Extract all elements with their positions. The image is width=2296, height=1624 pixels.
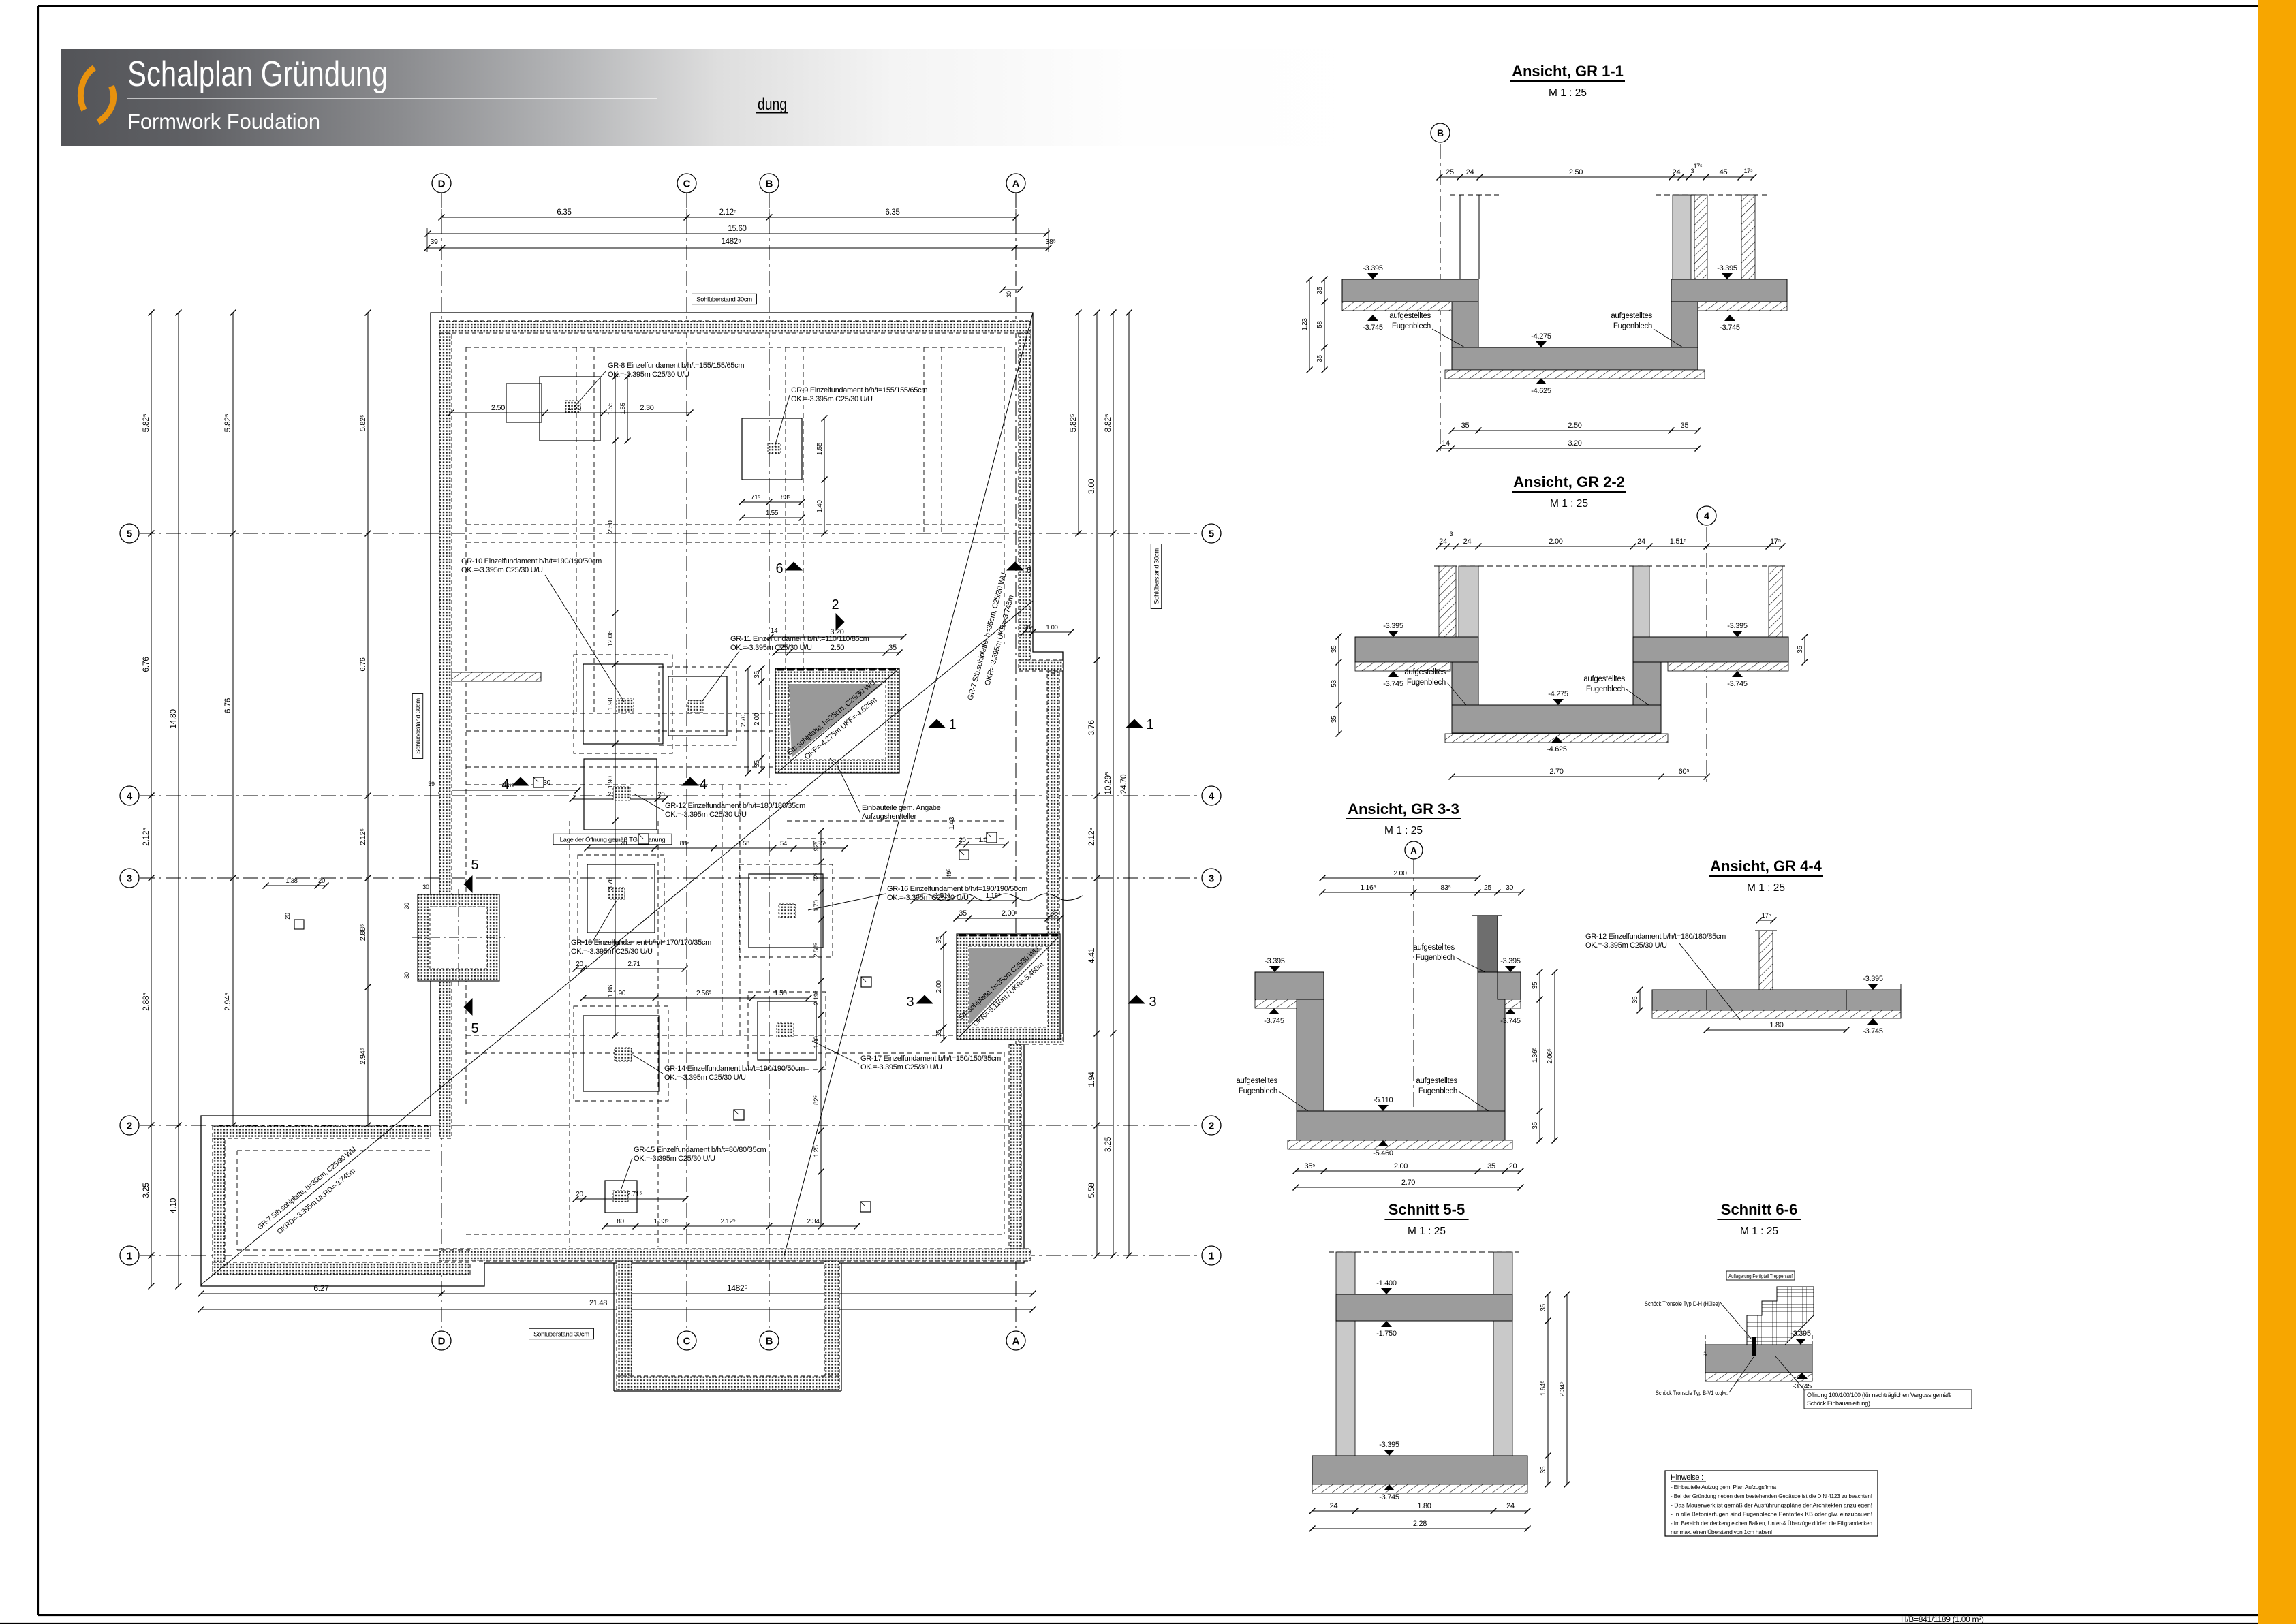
svg-text:2.00: 2.00 [754, 713, 761, 725]
svg-text:35: 35 [1681, 422, 1689, 430]
svg-text:Schnitt 5-5: Schnitt 5-5 [1389, 1201, 1465, 1218]
wall band left lower [439, 981, 452, 1138]
svg-text:5.82⁵: 5.82⁵ [359, 415, 367, 431]
svg-text:1482⁵: 1482⁵ [727, 1283, 747, 1293]
svg-text:35: 35 [1461, 422, 1470, 430]
svg-text:2: 2 [1209, 1121, 1214, 1132]
svg-text:8.82⁵: 8.82⁵ [1103, 413, 1113, 432]
left shaft pit body [418, 894, 499, 981]
elevator pit 2 gray slab triangle [969, 948, 1042, 1025]
schnitt5 hatch strip [1312, 1484, 1527, 1493]
svg-text:83⁵: 83⁵ [1440, 884, 1450, 892]
interior dim chain row3 [587, 847, 845, 849]
svg-text:2.50: 2.50 [607, 520, 615, 533]
svg-text:15.60: 15.60 [728, 225, 746, 233]
interior dashed strip pair vertical right of C [785, 347, 786, 713]
svg-text:-3.745: -3.745 [1727, 680, 1748, 688]
section marker 4 right [681, 777, 699, 786]
svg-text:24: 24 [1506, 1502, 1515, 1510]
wall band right upper [1019, 333, 1031, 660]
svg-text:1.90: 1.90 [813, 1036, 820, 1048]
svg-text:-3.395: -3.395 [1363, 264, 1383, 272]
section marker 5 upper [464, 875, 473, 893]
svg-text:35: 35 [1532, 1122, 1539, 1129]
svg-text:Fugenblech: Fugenblech [1407, 678, 1446, 687]
section marker 3 right [1128, 995, 1145, 1004]
section GR1 pit floor [1452, 347, 1698, 370]
svg-text:14.80: 14.80 [168, 709, 178, 729]
left dimension chain total 14.80 [178, 313, 179, 1286]
interior dim chain right column [820, 831, 822, 1226]
svg-text:H/B=841/1189 (1.00 m²): H/B=841/1189 (1.00 m²) [1901, 1614, 1984, 1624]
section GR2 pit right wall [1633, 662, 1661, 705]
svg-text:24: 24 [1439, 537, 1447, 546]
svg-text:17⁵: 17⁵ [1762, 912, 1771, 920]
elevator pit 2 diagonal [959, 937, 1059, 1037]
svg-text:GR-11 Einzelfundament b/h/t=11: GR-11 Einzelfundament b/h/t=110/110/85cm [730, 635, 869, 643]
svg-text:4: 4 [1704, 510, 1709, 521]
svg-text:12.06: 12.06 [607, 630, 615, 646]
svg-text:2.06⁵: 2.06⁵ [1547, 1048, 1554, 1063]
svg-text:aufgestelltes: aufgestelltes [1404, 668, 1446, 676]
section GR1 bottom dims [1452, 430, 1698, 431]
hatched beam strip left [452, 672, 541, 681]
svg-text:-3.395: -3.395 [1727, 622, 1748, 630]
interior dim chain vertical mid [615, 377, 616, 1035]
foundation GR-15 [605, 1181, 637, 1213]
svg-text:35: 35 [1540, 1304, 1547, 1311]
section GR3 levels [1269, 966, 1280, 972]
boxed label Lage der Oeffnung [553, 834, 672, 845]
svg-text:6: 6 [775, 561, 783, 576]
svg-text:35: 35 [778, 644, 786, 652]
svg-text:2: 2 [831, 597, 839, 612]
svg-text:nur max. einen Überstand von 1: nur max. einen Überstand von 1cm haben! [1671, 1529, 1772, 1535]
interior dashed strip pair vertical left of C [576, 347, 577, 713]
svg-text:GR-14 Einzelfundament b/h/t=19: GR-14 Einzelfundament b/h/t=190/190/50cm [664, 1065, 805, 1073]
svg-text:2.34: 2.34 [807, 1218, 820, 1225]
svg-text:24: 24 [1673, 168, 1681, 176]
top dimension 15.60 [428, 233, 1046, 234]
wall band right jog bottom [1019, 1033, 1063, 1044]
svg-text:Fugenblech: Fugenblech [1392, 322, 1431, 330]
svg-text:2.12⁵: 2.12⁵ [141, 828, 151, 846]
small dim 3.61-5 [441, 790, 578, 791]
header gradient banner [61, 49, 1403, 146]
top dimension chain grid spans [441, 217, 1016, 218]
svg-text:D: D [438, 178, 446, 190]
svg-text:60⁵: 60⁵ [1679, 768, 1690, 776]
wall band ext top [213, 1126, 431, 1138]
svg-text:Sohlüberstand 30cm: Sohlüberstand 30cm [1153, 548, 1160, 604]
svg-text:38⁵: 38⁵ [1045, 238, 1055, 246]
svg-text:Fugenblech: Fugenblech [1418, 1087, 1457, 1095]
section GR1 top dims [1440, 176, 1754, 178]
svg-text:83⁵: 83⁵ [781, 494, 791, 501]
svg-text:4.41: 4.41 [1087, 948, 1096, 963]
svg-text:5.58: 5.58 [1087, 1183, 1096, 1198]
foundation GR-12 [584, 759, 657, 830]
grid bubbles top [432, 174, 451, 193]
svg-text:53: 53 [1331, 680, 1338, 687]
svg-text:1.80: 1.80 [1417, 1502, 1431, 1510]
section GR2 middle light wall [1633, 566, 1649, 637]
section GR1 left wall lines [1459, 195, 1461, 279]
svg-text:3: 3 [1450, 531, 1453, 537]
svg-text:1.90: 1.90 [607, 698, 615, 710]
svg-text:aufgestelltes: aufgestelltes [1236, 1077, 1277, 1085]
section GR4 levels [1867, 984, 1878, 990]
elevator pit 2 left dims [943, 934, 944, 1040]
svg-text:5: 5 [471, 1021, 478, 1036]
svg-text:GR-8 Einzelfundament b/h/t=155: GR-8 Einzelfundament b/h/t=155/155/65cm [608, 362, 744, 370]
svg-text:Fugenblech: Fugenblech [1613, 322, 1652, 330]
interior dashed strip horizontal right wing [787, 820, 1004, 822]
left inner dimension chain x540 [367, 313, 369, 1125]
wall band ext bottom [213, 1262, 470, 1275]
svg-text:1.70: 1.70 [813, 900, 820, 911]
svg-text:C: C [683, 178, 691, 190]
section GR3 top dims [1322, 877, 1478, 879]
svg-text:2.00: 2.00 [1002, 909, 1015, 918]
svg-text:35: 35 [1487, 1162, 1495, 1170]
svg-text:M 1 : 25: M 1 : 25 [1550, 498, 1588, 510]
section GR3 hatch strips [1255, 999, 1297, 1008]
svg-text:-3.745: -3.745 [1793, 1382, 1812, 1390]
svg-text:3.76: 3.76 [607, 877, 615, 890]
svg-text:71⁵: 71⁵ [751, 494, 761, 501]
section GR3 grid bubble A [1405, 841, 1423, 859]
section GR3 bottom dims [1296, 1170, 1521, 1172]
top dimension 1482.5 [427, 247, 1049, 249]
schnitt5 left light column [1336, 1252, 1355, 1456]
svg-text:A: A [1012, 178, 1020, 190]
svg-text:-5.460: -5.460 [1373, 1149, 1393, 1157]
small dims left mid [266, 885, 326, 886]
interior dashed corridor right-mid [722, 785, 723, 1035]
svg-text:aufgestelltes: aufgestelltes [1389, 312, 1431, 320]
section marker 1 left [928, 719, 946, 728]
svg-text:-3.745: -3.745 [1264, 1017, 1284, 1025]
svg-text:Sohlüberstand 30cm: Sohlüberstand 30cm [533, 1330, 589, 1338]
svg-text:5.82⁵: 5.82⁵ [1068, 413, 1078, 432]
foundation GR-14 [583, 1016, 659, 1091]
svg-text:35: 35 [754, 671, 761, 678]
svg-text:-4.275: -4.275 [1548, 690, 1568, 698]
section marker 6 left [785, 562, 803, 571]
svg-text:A: A [1012, 1336, 1020, 1347]
svg-text:17⁵: 17⁵ [1694, 163, 1703, 170]
schnitt6 levels [1795, 1339, 1806, 1345]
svg-text:B: B [766, 1336, 773, 1347]
svg-text:-5.110: -5.110 [1374, 1096, 1393, 1104]
interior dashed strip row5 [466, 524, 1004, 525]
section GR1 wall dashed top line [1450, 194, 1499, 196]
section GR2 bottom dims [1452, 776, 1707, 777]
section GR1 right hatched wall 1 [1694, 195, 1707, 279]
boxed label Sohlueberstand right rotated [1151, 544, 1162, 609]
right dimension chain segments [1096, 313, 1098, 1255]
svg-text:39: 39 [428, 781, 435, 787]
svg-text:-1.400: -1.400 [1376, 1279, 1397, 1287]
svg-text:35: 35 [1331, 715, 1338, 723]
svg-text:1.38: 1.38 [285, 877, 297, 885]
small room rect near GR-8 [506, 384, 542, 422]
svg-text:1.51⁵: 1.51⁵ [1670, 537, 1686, 546]
svg-text:2.50: 2.50 [1568, 422, 1581, 430]
interior dim chain 2.71 [576, 968, 685, 969]
svg-text:1.40: 1.40 [816, 500, 824, 513]
svg-text:aufgestelltes: aufgestelltes [1416, 1077, 1457, 1085]
svg-text:6.76: 6.76 [141, 657, 151, 672]
svg-text:B: B [766, 178, 773, 190]
schnitt6 tronsole element [1752, 1337, 1756, 1356]
svg-text:1.43: 1.43 [948, 817, 956, 830]
svg-text:1.00: 1.00 [1046, 624, 1057, 631]
foundation GR-10 [583, 664, 663, 744]
svg-text:-4.625: -4.625 [1531, 387, 1551, 395]
svg-text:5: 5 [471, 858, 478, 873]
svg-text:30: 30 [1006, 291, 1012, 298]
svg-text:2.12⁵: 2.12⁵ [1087, 828, 1096, 846]
interior dim chain top-left [451, 412, 690, 413]
svg-text:2.70: 2.70 [740, 714, 747, 727]
svg-text:3.25: 3.25 [1103, 1136, 1113, 1152]
wall band ext left [213, 1138, 225, 1275]
section GR2 left hatched wall [1439, 566, 1456, 637]
svg-text:35: 35 [935, 1029, 943, 1037]
svg-text:GR-12 Einzelfundament b/h/t=18: GR-12 Einzelfundament b/h/t=180/180/35cm [665, 802, 805, 810]
svg-text:M 1 : 25: M 1 : 25 [1740, 1225, 1778, 1237]
dashed offset rectangles around foundations [574, 655, 672, 753]
diagonal leader shallow GR-7 slab [201, 601, 1033, 1285]
svg-text:GR-17 Einzelfundament b/h/t=15: GR-17 Einzelfundament b/h/t=150/150/35cm [860, 1055, 1001, 1063]
section GR3 left slab [1255, 972, 1324, 999]
svg-text:Schöck Tronsole Typ B-V1 o.glw: Schöck Tronsole Typ B-V1 o.glw. [1656, 1390, 1728, 1397]
svg-text:- Bei der Gründung neben dem b: - Bei der Gründung neben dem bestehenden… [1671, 1493, 1872, 1499]
section GR1 pit right wall [1671, 302, 1698, 347]
foundation GR-17 [758, 1001, 816, 1060]
svg-text:24: 24 [1466, 168, 1474, 176]
svg-text:2.50: 2.50 [831, 644, 844, 652]
svg-text:-3.745: -3.745 [1500, 1017, 1521, 1025]
svg-text:GR-9 Einzelfundament b/h/t=155: GR-9 Einzelfundament b/h/t=155/155/65cm [791, 386, 927, 394]
section GR2 levels [1388, 631, 1399, 637]
svg-text:17⁵: 17⁵ [1770, 537, 1781, 546]
section GR2 right dim 35 [1804, 637, 1805, 662]
wall band right jog top [1019, 660, 1063, 671]
svg-text:Öffnung 100/100/100 (für nacht: Öffnung 100/100/100 (für nachträglichen … [1807, 1392, 1951, 1399]
svg-text:GR-15 Einzelfundament b/h/t=80: GR-15 Einzelfundament b/h/t=80/80/35cm [634, 1146, 766, 1154]
svg-text:-3.745: -3.745 [1720, 324, 1740, 332]
wall band right lower [1009, 1044, 1021, 1249]
svg-text:1: 1 [1209, 1251, 1214, 1262]
svg-text:20: 20 [959, 837, 966, 844]
GR-8 side dim 1.55 [627, 377, 628, 441]
svg-text:1.50: 1.50 [774, 990, 787, 997]
interior dim chain 1.90 2.56 1.50 [583, 997, 809, 999]
svg-text:3: 3 [127, 873, 132, 885]
section GR3 right dims [1539, 972, 1540, 1140]
svg-text:35: 35 [935, 936, 943, 943]
svg-text:Hinweise :: Hinweise : [1671, 1473, 1703, 1482]
elevator pit 1 diagonal [778, 670, 898, 772]
right dimension total 24.70 [1128, 313, 1130, 1255]
svg-text:1.64⁵: 1.64⁵ [1540, 1381, 1547, 1396]
section marker 5 lower [464, 998, 473, 1016]
svg-text:Fugenblech: Fugenblech [1586, 685, 1625, 693]
section marker 4 left [512, 777, 529, 786]
svg-text:aufgestelltes: aufgestelltes [1413, 943, 1455, 952]
svg-text:1.58: 1.58 [738, 840, 749, 847]
interior dashed strip horizontal upper [466, 713, 787, 714]
section GR3 left wall [1297, 999, 1324, 1111]
section GR2 pit floor [1452, 705, 1661, 733]
svg-text:58: 58 [1316, 321, 1324, 328]
grid bubbles left [120, 524, 139, 543]
svg-text:Sohlüberstand 30cm: Sohlüberstand 30cm [696, 296, 752, 303]
inner dashed offset lines [466, 347, 1004, 348]
dashed pair right of B [923, 347, 925, 533]
svg-text:49⁵: 49⁵ [946, 869, 953, 878]
interior dim chain GR-9 [742, 501, 802, 503]
svg-text:- In alle Betonierfugen sind F: - In alle Betonierfugen sind Fugenbleche… [1671, 1511, 1872, 1518]
svg-text:5: 5 [127, 529, 132, 540]
svg-text:35: 35 [754, 760, 761, 768]
section GR1 grid bubble B [1431, 123, 1450, 142]
extension inner dashed offset [236, 1151, 238, 1250]
svg-text:1.55: 1.55 [766, 510, 779, 517]
interior dashed corridor for foundation row [569, 821, 570, 1247]
svg-text:5: 5 [1209, 529, 1214, 540]
svg-text:30: 30 [1050, 670, 1057, 676]
svg-text:GR-10 Einzelfundament b/h/t=19: GR-10 Einzelfundament b/h/t=190/190/50cm [461, 557, 602, 565]
boxed label Sohlueberstand top [692, 294, 757, 304]
elevator pit 1 top dims [771, 636, 903, 638]
svg-text:4: 4 [699, 777, 707, 792]
notes box Hinweise [1665, 1471, 1878, 1536]
svg-text:4: 4 [501, 777, 509, 792]
svg-text:-1.750: -1.750 [1376, 1330, 1397, 1338]
grid axis horizontal lines 5 4 3 2 1 [140, 533, 1201, 534]
svg-text:24.70: 24.70 [1119, 774, 1128, 794]
section GR3 right wall [1478, 972, 1505, 1111]
svg-text:38⁵: 38⁵ [1024, 624, 1034, 631]
svg-text:Fugenblech: Fugenblech [1239, 1087, 1277, 1095]
section GR1 left dims [1324, 279, 1325, 370]
svg-text:Fugenblech: Fugenblech [1416, 954, 1455, 962]
svg-text:Aufzugshersteller: Aufzugshersteller [862, 813, 917, 821]
section GR2 left dims [1338, 636, 1339, 734]
svg-text:35: 35 [1316, 355, 1324, 362]
svg-text:1.16⁵: 1.16⁵ [1360, 884, 1376, 892]
svg-text:17⁵: 17⁵ [1744, 168, 1753, 174]
svg-text:6.35: 6.35 [885, 208, 899, 217]
svg-text:3: 3 [1149, 995, 1156, 1010]
svg-text:2.56⁵: 2.56⁵ [696, 990, 711, 997]
svg-text:2.28: 2.28 [1413, 1520, 1427, 1528]
svg-text:-3.395: -3.395 [1863, 975, 1883, 983]
svg-text:80: 80 [617, 1218, 624, 1225]
svg-text:24: 24 [1463, 537, 1472, 546]
section GR4 dims [1639, 990, 1641, 1010]
svg-text:10.29⁵: 10.29⁵ [1103, 772, 1113, 795]
wall band protrusion right [824, 1261, 839, 1376]
svg-text:1.33⁵: 1.33⁵ [653, 1218, 668, 1225]
svg-text:M 1 : 25: M 1 : 25 [1408, 1225, 1446, 1237]
section GR2 dashed top line [1434, 565, 1785, 567]
section GR1 right hatched wall 2 [1741, 195, 1755, 279]
svg-text:OK.=-3.395m C25/30 U/U: OK.=-3.395m C25/30 U/U [634, 1155, 715, 1163]
svg-text:54: 54 [780, 840, 787, 847]
section GR4 hatch strip [1652, 1010, 1901, 1018]
svg-text:M 1 : 25: M 1 : 25 [1384, 825, 1423, 837]
section GR2 right slab [1633, 637, 1788, 662]
schnitt5 bottom dims [1312, 1510, 1527, 1512]
elevator pit 2 top dims [914, 900, 1015, 901]
svg-text:Schnitt 6-6: Schnitt 6-6 [1721, 1201, 1797, 1218]
svg-text:1.94: 1.94 [1087, 1072, 1096, 1087]
svg-text:Ansicht, GR 4-4: Ansicht, GR 4-4 [1710, 858, 1822, 875]
right dimension chain 8.82 10.29 [1113, 313, 1114, 1255]
svg-text:-3.745: -3.745 [1383, 680, 1403, 688]
schnitt5 dashed top line [1329, 1251, 1519, 1253]
svg-text:1: 1 [948, 717, 956, 732]
svg-text:1.25: 1.25 [813, 1145, 820, 1157]
svg-text:1: 1 [127, 1251, 132, 1262]
svg-text:24: 24 [1330, 1502, 1338, 1510]
svg-text:20: 20 [576, 961, 583, 968]
svg-text:-3.395: -3.395 [1265, 957, 1285, 965]
svg-text:1.80: 1.80 [1769, 1021, 1783, 1029]
svg-text:-3.745: -3.745 [1863, 1027, 1883, 1035]
svg-text:2.50: 2.50 [491, 404, 505, 412]
interior dim chain bottom row [605, 1225, 857, 1227]
elevator pit 2 body [957, 934, 1060, 1040]
svg-text:14: 14 [771, 627, 778, 635]
elevator pit 1 left dims [761, 668, 762, 770]
protrusion outer outline [613, 1263, 615, 1391]
interior dim chain 2.71-5 [576, 1198, 685, 1200]
section GR2 pit left wall [1452, 662, 1478, 705]
wall band left upper [439, 333, 452, 894]
svg-text:20: 20 [658, 791, 665, 798]
svg-text:aufgestelltes: aufgestelltes [1611, 312, 1652, 320]
svg-text:35: 35 [1050, 909, 1058, 918]
svg-text:30: 30 [422, 884, 429, 890]
svg-text:-3.395: -3.395 [1790, 1330, 1811, 1338]
section GR1 right light wall [1673, 195, 1691, 279]
foundation GR-9 [742, 418, 802, 480]
svg-text:-3.395: -3.395 [1383, 622, 1403, 630]
svg-text:2.70: 2.70 [1401, 1178, 1415, 1187]
svg-text:OK.=-3.395m C25/30 U/U: OK.=-3.395m C25/30 U/U [571, 948, 653, 956]
svg-text:-3.395: -3.395 [1379, 1441, 1399, 1449]
schnitt6 stair cross-hatched [1747, 1287, 1814, 1345]
svg-text:3: 3 [1209, 873, 1214, 885]
svg-text:2.94⁵: 2.94⁵ [359, 1048, 367, 1064]
svg-text:- Im Bereich der deckengleiche: - Im Bereich der deckengleichen Balken, … [1671, 1520, 1872, 1527]
schnitt5 right light column [1493, 1252, 1512, 1456]
svg-text:30: 30 [1506, 884, 1514, 892]
svg-text:2.94⁵: 2.94⁵ [223, 993, 232, 1011]
schnitt6 hatch strip [1705, 1373, 1812, 1381]
svg-text:2.12⁵: 2.12⁵ [720, 1218, 735, 1225]
interior dashed strip horizontal second [466, 766, 787, 768]
svg-text:82⁵: 82⁵ [813, 1095, 820, 1105]
wall band protrusion left [617, 1261, 632, 1376]
section marker 2 [836, 613, 845, 631]
